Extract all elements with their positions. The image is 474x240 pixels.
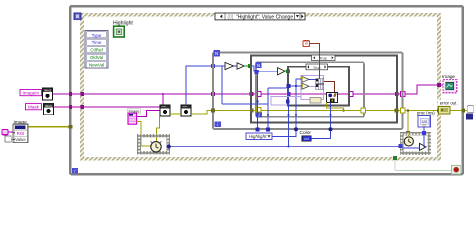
case structure C2 border (288, 67, 349, 106)
comparison gate T4 (302, 76, 309, 82)
wire T2 out (green) (244, 65, 249, 67)
C1 selector label (312, 55, 336, 61)
error out label (438, 100, 459, 106)
gate T2 (237, 63, 244, 69)
wire error from draw node (327, 102, 344, 111)
F2 count terminal N (256, 62, 262, 68)
color box constant (302, 136, 311, 141)
F1 iteration terminal i (214, 121, 221, 127)
F2 blue input tunnel (254, 70, 258, 74)
olive error wire: property node out (28, 126, 69, 128)
junction on ImageIn wire + drop to node1 (162, 93, 164, 95)
svg-text:NewVal: NewVal (89, 62, 104, 67)
svg-text:"Highlight": Value Change: "Highlight": Value Change (236, 14, 293, 20)
property node Image (13, 124, 28, 143)
svg-text:ImageIn: ImageIn (22, 91, 39, 96)
svg-text:ROI: ROI (17, 131, 25, 136)
svg-text:Value: Value (15, 137, 26, 142)
C2 selector label (306, 64, 328, 70)
for loop F1 border (213, 53, 403, 130)
case structure C1 border (251, 55, 397, 122)
svg-text:CtlRef: CtlRef (90, 48, 103, 53)
wait clock icon 2 (404, 137, 413, 146)
event timeout terminal (74, 13, 81, 20)
svg-text:I32: I32 (422, 123, 426, 127)
numeric mini box below gates (310, 98, 321, 104)
blue junction dots (294, 127, 298, 131)
wire maroon over selectors (319, 54, 321, 79)
svg-text:###: ### (304, 137, 310, 141)
svg-text:OldVal: OldVal (90, 55, 103, 60)
F2 iteration terminal i (256, 112, 262, 118)
svg-text:Type: Type (92, 33, 102, 38)
event selector label (215, 13, 305, 20)
wire Mask (magenta) (54, 106, 161, 108)
external node boxes right edge (467, 106, 474, 113)
wire green-blue L into F2 (252, 66, 258, 71)
wire inside F1 to gates (215, 65, 237, 67)
IMAQ image constant (128, 113, 137, 124)
blue wires down from F2 interior (222, 66, 331, 147)
gate T1 (225, 62, 234, 69)
wires gates to array icon (309, 79, 316, 86)
svg-text:proc (ms): proc (ms) (417, 110, 435, 115)
green tunnel on case2 (286, 69, 290, 73)
array icon (striped) (316, 79, 324, 89)
boolean terminal Highlight (114, 26, 125, 37)
IMAQ vi node1 (160, 105, 170, 116)
draw node (overlay) (327, 93, 338, 103)
svg-text:Highlight: Highlight (249, 134, 268, 139)
svg-text:Color: Color (300, 130, 312, 136)
while loop W1 border (70, 6, 463, 174)
event structure border (82, 15, 439, 159)
for loop F2 border (256, 62, 364, 117)
blue ms wire S1 to S2 (171, 146, 400, 148)
svg-text:N: N (257, 63, 260, 68)
wait clock icon (151, 141, 162, 152)
svg-text:True: True (319, 57, 327, 61)
IMAQ image indicator (443, 79, 457, 92)
wire ring constant (maroon) (310, 44, 320, 80)
wire to gate T3 (258, 70, 278, 72)
enum constant Highlight (246, 133, 272, 139)
flat sequence S2 (wait) (402, 134, 429, 153)
cluster frame (lavender) (301, 75, 324, 99)
olive error wires center (137, 111, 468, 147)
IMAQ vi node2 (181, 105, 191, 116)
comparison gate T5 (302, 83, 309, 89)
wire proc to S2 (403, 127, 426, 148)
proc indicator (418, 116, 430, 128)
svg-text:IMAQ: IMAQ (45, 104, 53, 108)
svg-text:error out: error out (440, 100, 457, 105)
IMAQ create constant Image label (128, 109, 141, 114)
blue tunnels on borders (256, 84, 291, 131)
wire T3 out green (285, 70, 287, 72)
value constant (5, 136, 11, 142)
ROI constant (2, 129, 8, 134)
S2 tunnels (422, 131, 426, 135)
svg-text:Image: Image (442, 74, 455, 79)
flat sequence S1 (with wait) (139, 136, 168, 153)
while loop conditional terminal (452, 165, 461, 174)
event data node (85, 31, 108, 68)
wire image const to node1 (137, 111, 160, 117)
control ImageIn label (20, 90, 42, 96)
tunnels on loop/event borders (magenta) (69, 83, 441, 109)
convert triangle in S2 (420, 143, 427, 150)
svg-text:Time: Time (92, 40, 102, 45)
olive tunnels (139, 109, 465, 138)
wire value (11, 138, 13, 140)
control Mask label (26, 104, 42, 110)
gate T3 (278, 68, 285, 75)
tunnel green on case1 (248, 64, 252, 68)
svg-text:Mask: Mask (28, 105, 40, 110)
F1 count terminal N (213, 50, 220, 57)
svg-text:N: N (215, 51, 218, 56)
svg-text:IMAQ: IMAQ (44, 89, 52, 93)
constant (red ring) (303, 41, 310, 47)
while loop iteration terminal i (72, 168, 78, 174)
svg-text:[0]: [0] (228, 14, 234, 20)
stop wire (pale green) (395, 160, 452, 171)
IMAQ image control block ImageIn (43, 88, 53, 100)
IMAQ image control block Mask (44, 103, 54, 115)
error out indicator (439, 106, 451, 114)
lavender refnum wire (271, 97, 301, 106)
wire ImageIn (magenta) (53, 85, 444, 95)
wire node2-top to For1 (blue) (186, 66, 212, 105)
wire ROI (8, 131, 13, 133)
